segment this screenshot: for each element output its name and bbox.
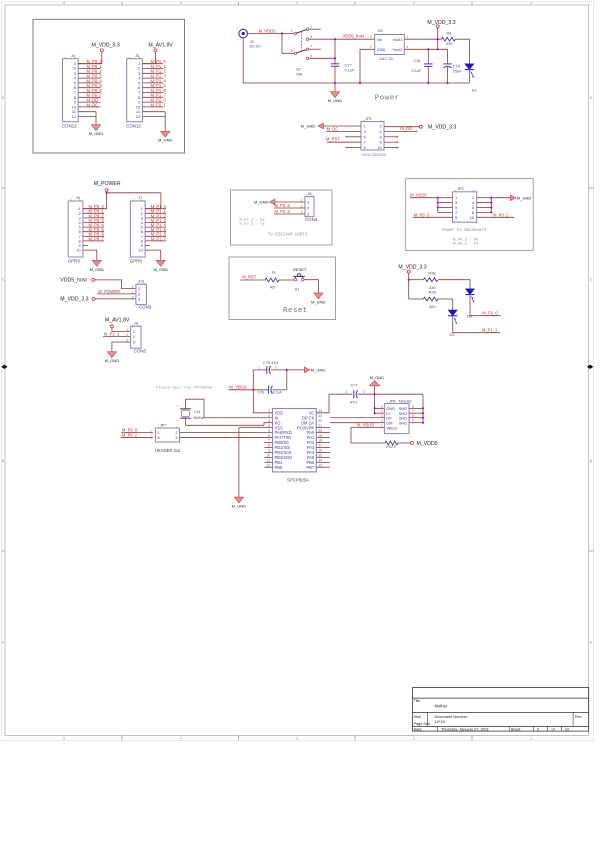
wire VBUS to R62	[351, 428, 385, 443]
svg-text:M_P2_3: M_P2_3	[275, 209, 291, 214]
LED D1	[465, 64, 474, 70]
crystal Y14	[180, 408, 191, 410]
wire U5 GND	[360, 49, 375, 83]
capacitor C19 (polarized)	[443, 63, 451, 65]
LED D8	[465, 289, 474, 295]
svg-text:5: 5	[291, 49, 293, 53]
svg-text:1: 1	[370, 45, 372, 49]
svg-text:M_P2_1: M_P2_1	[151, 102, 167, 107]
junction vout2	[437, 48, 439, 50]
svg-text:330: 330	[446, 41, 453, 46]
svg-text:4: 4	[180, 737, 182, 741]
ground JP1 pin1	[324, 125, 362, 127]
svg-text:JP7: JP7	[160, 423, 167, 427]
svg-text:0.1uF: 0.1uF	[345, 67, 356, 72]
border zone ticks	[121, 2, 123, 5]
svg-text:3: 3	[268, 419, 270, 423]
svg-text:Please near the SPCP825A: Please near the SPCP825A	[156, 386, 213, 391]
wire power to pin1	[142, 52, 155, 64]
barrel jack J3 DC-5V	[239, 29, 248, 38]
junction gnd node	[374, 393, 376, 395]
svg-text:JP2: JP2	[457, 187, 464, 191]
section box: reset	[229, 257, 336, 320]
svg-text:M_VBUS: M_VBUS	[357, 423, 374, 428]
svg-text:HEADER 2x2: HEADER 2x2	[155, 448, 181, 453]
svg-text:SW: SW	[296, 72, 303, 77]
junction JP6 gnd pins	[374, 407, 376, 409]
svg-text:23: 23	[318, 414, 322, 418]
svg-text:M_P0_3 : TX: M_P0_3 : TX	[453, 243, 479, 247]
svg-text:2: 2	[291, 29, 293, 33]
ground J6 pin10	[96, 250, 98, 260]
junction U5 gnd rail	[359, 82, 361, 84]
svg-text:3: 3	[310, 35, 312, 39]
wire pin3 M_DC	[326, 130, 361, 132]
svg-text:M_P0_3: M_P0_3	[414, 212, 430, 217]
svg-text:M_GND: M_GND	[232, 504, 247, 509]
svg-text:GPRS: GPRS	[130, 258, 143, 263]
svg-text:C75 47U: C75 47U	[263, 360, 279, 365]
wire JP2 pin10 M_P0_2	[477, 216, 515, 218]
switch S2	[294, 32, 296, 34]
svg-text:C: C	[590, 278, 593, 282]
svg-text:M_VDD_3.3: M_VDD_3.3	[427, 20, 455, 26]
wire R62 to M_VDD5	[398, 442, 411, 444]
svg-text:CON3: CON3	[139, 305, 152, 310]
connector J4 (CON12)	[63, 59, 79, 122]
wire JP2 pin9 M_P0_3	[413, 216, 453, 218]
wire JP7 pin4 to PA7	[180, 437, 273, 439]
svg-text:3: 3	[296, 1, 298, 5]
svg-text:C18: C18	[413, 58, 420, 63]
IC right stubs PA/PB	[316, 427, 330, 429]
wire pin7 M_RST	[327, 141, 361, 143]
wire D1 to rail	[468, 70, 470, 83]
svg-text:PB5: PB5	[275, 465, 283, 470]
svg-text:3: 3	[370, 35, 372, 39]
svg-text:Date:: Date:	[414, 728, 423, 732]
wire to C18	[427, 49, 429, 64]
svg-text:M_DC: M_DC	[87, 102, 99, 107]
ground (C75)	[304, 367, 309, 373]
svg-text:Rev: Rev	[575, 715, 582, 719]
svg-text:VDD5_host: VDD5_host	[60, 278, 87, 284]
svg-text:M_VDD_3.3: M_VDD_3.3	[92, 42, 120, 48]
connector JP2	[453, 192, 477, 222]
junction R38	[408, 279, 410, 281]
capacitor C76	[268, 386, 270, 394]
svg-text:D1: D1	[472, 88, 477, 93]
svg-text:M_P0_7: M_P0_7	[89, 236, 105, 241]
svg-text:1: 1	[132, 285, 134, 289]
svg-text:4: 4	[407, 45, 409, 49]
wire J3 to switch	[248, 33, 295, 35]
svg-text:12*15: 12*15	[435, 719, 445, 724]
svg-text:J3: J3	[250, 40, 254, 44]
svg-text:20: 20	[318, 429, 322, 433]
svg-text:3: 3	[126, 339, 128, 343]
ground JP2	[510, 195, 515, 201]
svg-text:Reset: Reset	[283, 307, 308, 315]
svg-text:2: 2	[126, 333, 128, 337]
svg-text:M_GND: M_GND	[158, 138, 173, 143]
connector J6 (GPRS)	[68, 201, 83, 257]
svg-text:2: 2	[407, 35, 409, 39]
junctions JP2 left	[437, 197, 439, 199]
svg-text:M_P2_1: M_P2_1	[104, 332, 120, 337]
svg-text:Y14: Y14	[193, 409, 201, 414]
junction J3 branch	[281, 32, 283, 34]
connector J9 CON3	[131, 326, 142, 348]
svg-text:J7: J7	[138, 196, 142, 200]
svg-text:M_VDD5: M_VDD5	[410, 193, 427, 198]
svg-text:GND: GND	[377, 47, 386, 52]
switch stub pin1	[309, 28, 321, 30]
svg-text:47U: 47U	[350, 400, 357, 405]
svg-text:2: 2	[268, 414, 270, 418]
svg-text:M_VBUS: M_VBUS	[229, 385, 246, 390]
svg-text:M_GND: M_GND	[328, 98, 343, 103]
section box: power to mainboard	[406, 179, 534, 251]
svg-text:5: 5	[381, 405, 383, 409]
junctions JP2 right	[490, 197, 492, 199]
pushbutton S1 RESET	[294, 278, 297, 281]
wire S1 to ground	[304, 280, 318, 293]
svg-text:J9: J9	[134, 322, 138, 326]
svg-text:To ESC2440 UART1: To ESC2440 UART1	[268, 233, 308, 237]
svg-text:M_DC: M_DC	[327, 127, 339, 132]
svg-text:4: 4	[180, 1, 182, 5]
stub pin6	[384, 136, 398, 138]
svg-text:Mother: Mother	[435, 703, 448, 708]
junction C18 gnd	[427, 82, 429, 84]
connector JP6 Mini-B2	[384, 404, 409, 434]
svg-text:S1: S1	[295, 287, 300, 292]
svg-text:M_AV1.8V: M_AV1.8V	[105, 318, 130, 324]
wire J3 ground return	[243, 38, 335, 83]
svg-text:10uF: 10uF	[453, 69, 462, 74]
junction C75 right	[286, 369, 288, 371]
svg-text:JTAG-SD2430: JTAG-SD2430	[361, 152, 387, 157]
svg-text:Vout1: Vout1	[392, 37, 402, 42]
wire C17 to ground rail	[334, 66, 336, 83]
svg-text:M_P0_2: M_P0_2	[122, 433, 138, 438]
svg-text:1: 1	[530, 1, 532, 5]
wire D9 to M_P1_1	[453, 316, 500, 333]
svg-text:M_GND: M_GND	[105, 358, 120, 363]
svg-text:1: 1	[310, 25, 312, 29]
svg-text:M_VDD_3.3: M_VDD_3.3	[60, 296, 88, 302]
ground J8 pin1	[275, 201, 305, 203]
svg-text:M_POWER: M_POWER	[94, 181, 121, 187]
wire J8 pin2 M_P2_2	[274, 207, 305, 209]
capacitor C18	[424, 63, 432, 65]
svg-text:C76: C76	[257, 390, 264, 394]
capacitor C17	[331, 63, 339, 65]
IC U-SPCP825A	[273, 409, 317, 472]
svg-text:Size: Size	[414, 715, 421, 719]
power port M_VDD_3.3 (JTAG)	[419, 125, 422, 128]
ground J4 pin12	[95, 117, 97, 125]
junctions shield bus	[422, 407, 424, 409]
svg-text:5: 5	[268, 429, 270, 433]
wire C77 to gnd node	[358, 393, 423, 395]
wire R4 to D1	[455, 39, 469, 64]
svg-text:M_P2_2: M_P2_2	[275, 203, 291, 208]
svg-text:2: 2	[363, 390, 365, 394]
svg-text:M_GND: M_GND	[370, 375, 385, 380]
svg-text:3: 3	[132, 296, 134, 300]
wire to R39	[409, 298, 424, 300]
capacitor C77	[353, 390, 355, 398]
JP6 right shield stubs	[409, 407, 423, 409]
svg-text:VDD5_host: VDD5_host	[343, 34, 365, 39]
svg-text:M_P0_2: M_P0_2	[493, 212, 509, 217]
junction pin6 node	[334, 57, 336, 59]
svg-text:D: D	[590, 96, 593, 100]
svg-text:CON12: CON12	[62, 123, 77, 128]
power port M_VDD5 (USB)	[411, 442, 414, 445]
shield bus vertical	[422, 394, 424, 423]
svg-text:M_DD: M_DD	[400, 126, 412, 131]
svg-text:M_P2_3 : TX: M_P2_3 : TX	[240, 223, 266, 227]
svg-text:VBUS: VBUS	[386, 425, 397, 430]
svg-text:+: +	[237, 28, 239, 32]
svg-text:R62 0: R62 0	[386, 445, 396, 449]
resistor R39	[423, 297, 438, 301]
wire crystal to XO	[186, 418, 273, 425]
svg-text:M_P2_0: M_P2_0	[482, 311, 498, 316]
svg-text:M_GND: M_GND	[153, 267, 168, 272]
svg-text:17: 17	[318, 444, 322, 448]
ground rail	[335, 82, 469, 84]
connector J12 CON3	[136, 284, 147, 304]
svg-text:1117-33: 1117-33	[379, 56, 393, 61]
LED D9	[448, 310, 457, 316]
svg-text:U5: U5	[378, 28, 384, 33]
wire gnd to JP6 pins 5,4	[374, 394, 376, 413]
svg-text:JP6: JP6	[389, 400, 396, 404]
svg-text:GPRS: GPRS	[68, 258, 81, 263]
connector JP7 HEADER 2x2	[155, 428, 179, 442]
wire M_VBUS row	[228, 389, 268, 391]
connector J5 (CON12)	[127, 59, 143, 122]
junction C19 gnd	[446, 82, 448, 84]
svg-text:M_P1_1: M_P1_1	[482, 328, 498, 333]
wire cap bank verticals	[252, 370, 254, 390]
wire M_RST to R5	[240, 279, 265, 281]
sheet alignment diamond left	[1, 365, 7, 369]
svg-text:6: 6	[268, 434, 270, 438]
wire to J9 pin1	[112, 328, 131, 332]
svg-text:4: 4	[310, 44, 312, 48]
svg-text:M_GND: M_GND	[301, 124, 316, 129]
wire power down	[437, 28, 439, 49]
svg-text:M_VDD_3.3: M_VDD_3.3	[398, 265, 426, 271]
JP2 left bus wires	[438, 197, 453, 199]
resistor R62	[385, 441, 398, 445]
svg-text:JP1: JP1	[365, 117, 372, 121]
wire Vout1	[404, 38, 441, 40]
svg-text:0.1uF: 0.1uF	[273, 390, 283, 394]
svg-text:5: 5	[63, 737, 65, 741]
wire VSS to ground	[239, 428, 273, 497]
svg-text:M_GND: M_GND	[311, 368, 326, 373]
wire pin4	[384, 130, 417, 132]
svg-text:M_RST: M_RST	[242, 275, 256, 280]
svg-text:+: +	[177, 405, 179, 409]
junction vout1	[437, 38, 439, 40]
wire C19 to rail	[447, 67, 449, 83]
stub pin9	[346, 147, 361, 149]
svg-text:C: C	[2, 278, 5, 282]
section box: host connectors	[33, 19, 185, 153]
stub pin10	[384, 147, 398, 149]
wire R39 to D9	[438, 299, 453, 310]
IC left stubs PB	[264, 442, 272, 444]
wire C75 loop top	[253, 369, 266, 371]
svg-text:1k: 1k	[272, 270, 276, 275]
svg-text:1: 1	[530, 737, 532, 741]
svg-text:10: 10	[377, 145, 382, 150]
svg-text:2: 2	[537, 727, 539, 732]
svg-text:M_GND: M_GND	[254, 199, 269, 204]
resistor R4	[441, 37, 455, 41]
svg-text:3: 3	[296, 737, 298, 741]
resistor R5	[265, 278, 279, 282]
wire J9 pin2	[103, 335, 131, 337]
wire DP row	[330, 417, 384, 419]
svg-text:Power: Power	[375, 95, 400, 103]
svg-text:M_GND: M_GND	[311, 299, 326, 304]
wire R38 to D8	[438, 280, 470, 289]
svg-text:R38: R38	[428, 271, 435, 276]
capacitor C75	[266, 366, 268, 374]
wire Vout2	[404, 48, 447, 50]
svg-text:5: 5	[63, 1, 65, 5]
svg-text:M_P1_7: M_P1_7	[151, 236, 167, 241]
junction VDD5_host	[334, 38, 336, 40]
title block	[412, 688, 588, 732]
svg-text:R39: R39	[429, 289, 436, 294]
svg-text:Page Size: Page Size	[414, 722, 431, 726]
svg-text:J8: J8	[307, 192, 311, 196]
svg-text:0.1uF: 0.1uF	[412, 68, 423, 73]
wire J9 pin3 to ground	[112, 342, 131, 352]
svg-text:+: +	[177, 419, 179, 423]
junction C18 top	[427, 48, 429, 50]
ground VSS	[234, 497, 243, 503]
svg-text:10: 10	[266, 454, 270, 458]
svg-text:Vin: Vin	[377, 37, 383, 42]
svg-text:Sheet: Sheet	[511, 728, 521, 732]
svg-text:1: 1	[268, 409, 270, 413]
svg-text:R5: R5	[270, 284, 275, 289]
wire to R38	[409, 279, 424, 281]
svg-text:Title: Title	[414, 699, 421, 703]
svg-text:D: D	[2, 96, 5, 100]
svg-text:RESET: RESET	[293, 267, 307, 272]
svg-text:CON3: CON3	[305, 217, 318, 222]
wire down to C17	[334, 39, 336, 64]
ground J7 pin10	[160, 250, 162, 260]
junction M_VBUS	[252, 389, 254, 391]
svg-text:10: 10	[76, 248, 81, 253]
svg-text:1: 1	[258, 366, 260, 370]
wire crystal to XI	[186, 399, 273, 418]
connector JP1 JTAG	[361, 122, 384, 150]
pin stub wires J7	[145, 208, 166, 210]
ground (USB)	[369, 381, 379, 386]
svg-text:M_GND: M_GND	[90, 267, 105, 272]
ground reset	[314, 293, 323, 299]
wire JP7 pin1 M_P0_0	[121, 432, 151, 434]
svg-text:Vout2: Vout2	[392, 47, 402, 52]
svg-text:J12: J12	[138, 280, 144, 284]
pin stub wires J5	[142, 63, 163, 65]
JP2 right bus wires	[477, 197, 492, 199]
svg-text:-: -	[238, 41, 239, 45]
svg-text:R4: R4	[447, 30, 453, 35]
svg-text:CON3: CON3	[134, 348, 147, 353]
junction C17 gnd	[334, 82, 336, 84]
wire pin2 M_DD to power	[384, 126, 419, 128]
svg-text:SHD: SHD	[399, 420, 408, 425]
svg-text:12: 12	[136, 114, 141, 119]
wire M_POWER to J12 pin2	[97, 293, 136, 295]
wire VC to C77	[316, 394, 352, 413]
svg-text:2: 2	[132, 291, 134, 295]
wire D8 to M_P2_0	[470, 295, 501, 316]
svg-text:CON12: CON12	[126, 123, 141, 128]
svg-text:6MHz: 6MHz	[193, 415, 203, 420]
svg-text:PB7: PB7	[307, 465, 315, 470]
ground symbol power	[334, 83, 336, 92]
wire JP7 pin2 to PA6	[180, 432, 273, 434]
svg-text:12: 12	[565, 727, 569, 732]
svg-text:300: 300	[429, 304, 436, 309]
wire pin6 to C17 node	[309, 57, 335, 59]
wire power to resistors	[408, 273, 410, 299]
ground J9	[107, 352, 116, 358]
wire JP7 pin3 M_P0_2	[121, 437, 151, 439]
wire R5 to S1	[279, 279, 294, 281]
connector J7 (GPRS)	[130, 201, 145, 257]
switch stub pin4	[309, 48, 321, 50]
svg-text:1: 1	[126, 328, 128, 332]
section box: UART to ESC2440	[230, 190, 332, 245]
svg-text:DC-5V: DC-5V	[250, 45, 262, 49]
svg-text:4: 4	[381, 410, 383, 414]
svg-text:J5: J5	[135, 54, 139, 58]
svg-text:J6: J6	[76, 196, 80, 200]
svg-text:22: 22	[318, 419, 322, 423]
wire J8 pin3 M_P2_3	[274, 213, 305, 215]
svg-text:8: 8	[268, 444, 270, 448]
svg-text:Power to mainboard: Power to mainboard	[442, 228, 487, 233]
svg-text:10: 10	[470, 215, 475, 220]
wire branch to pole2	[282, 34, 294, 54]
wire to C19	[447, 49, 449, 64]
wire pin3 VDD5_host to U5	[309, 38, 375, 40]
svg-text:15: 15	[318, 454, 322, 458]
svg-text:M_VDD_3.3: M_VDD_3.3	[428, 124, 456, 130]
pin stub wires J6	[83, 208, 104, 210]
wire C18 to rail	[427, 66, 429, 83]
svg-text:SPCP825A: SPCP825A	[287, 478, 309, 483]
svg-text:Thursday, January 27, 2011: Thursday, January 27, 2011	[441, 727, 489, 732]
resistor R38	[423, 278, 438, 282]
